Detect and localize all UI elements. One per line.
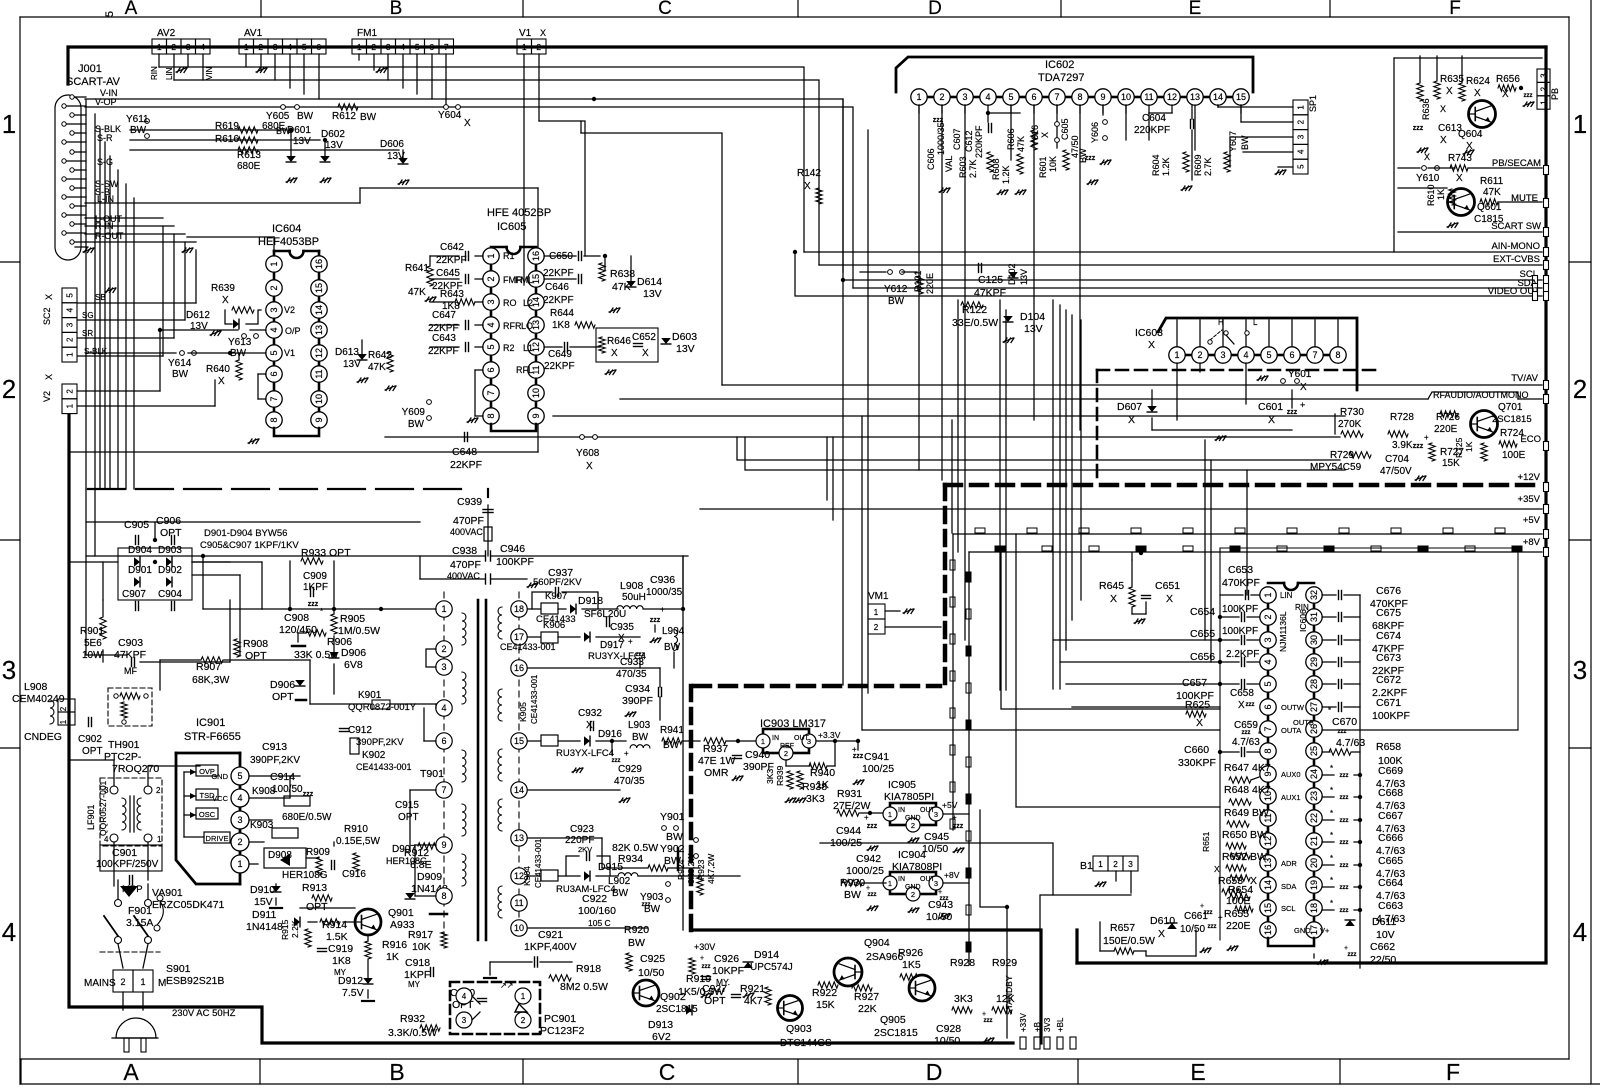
svg-text:D603: D603	[672, 331, 697, 343]
svg-text:4: 4	[237, 793, 242, 803]
svg-text:X: X	[44, 374, 54, 380]
svg-text:UPC574J: UPC574J	[750, 962, 793, 973]
svg-text:R924: R924	[676, 859, 686, 880]
svg-text:AV2: AV2	[157, 28, 176, 39]
svg-text:R611: R611	[1480, 176, 1504, 187]
svg-text:100KPF: 100KPF	[496, 556, 534, 568]
svg-text:1: 1	[761, 737, 765, 746]
svg-text:16: 16	[531, 251, 541, 261]
svg-text:3: 3	[2, 655, 16, 685]
svg-text:X: X	[44, 294, 54, 300]
svg-text:1: 1	[66, 403, 75, 408]
svg-text:C606: C606	[926, 148, 936, 170]
svg-text:*: *	[1330, 899, 1333, 908]
svg-text:Y613: Y613	[228, 337, 252, 348]
svg-text:1: 1	[916, 92, 921, 102]
svg-text:zzz: zzz	[1340, 908, 1349, 914]
svg-text:D904: D904	[128, 545, 152, 556]
svg-text:6: 6	[1263, 704, 1273, 709]
svg-text:7: 7	[444, 42, 449, 52]
svg-text:2: 2	[911, 890, 915, 899]
svg-text:zzz: zzz	[1413, 125, 1424, 132]
svg-text:2: 2	[1263, 614, 1273, 619]
svg-text:220E: 220E	[1226, 920, 1251, 932]
svg-text:Q601: Q601	[1477, 202, 1502, 213]
svg-text:X: X	[464, 118, 471, 129]
svg-text:C914: C914	[270, 771, 295, 783]
svg-text:470PF: 470PF	[450, 559, 481, 571]
svg-text:R645: R645	[1099, 580, 1124, 592]
svg-text:8: 8	[441, 891, 446, 901]
svg-text:1: 1	[66, 352, 75, 357]
svg-text:3: 3	[104, 786, 109, 795]
svg-text:2: 2	[59, 706, 68, 711]
svg-text:220KPF: 220KPF	[974, 125, 984, 158]
svg-text:D903: D903	[158, 545, 182, 556]
svg-text:3K3: 3K3	[806, 793, 825, 805]
svg-text:47KPF: 47KPF	[974, 287, 1006, 299]
svg-text:zzz: zzz	[867, 823, 878, 830]
svg-text:ADR: ADR	[1281, 859, 1297, 868]
svg-text:+: +	[866, 885, 870, 892]
svg-text:4.7/63: 4.7/63	[1336, 737, 1365, 749]
svg-text:R927: R927	[854, 991, 879, 1003]
svg-text:560PF/2KV: 560PF/2KV	[533, 577, 582, 588]
svg-text:47/50V: 47/50V	[1380, 466, 1412, 477]
svg-text:20: 20	[1309, 858, 1319, 868]
svg-text:13V: 13V	[643, 288, 662, 300]
svg-text:Q701: Q701	[1498, 402, 1523, 413]
svg-text:zzz: zzz	[1208, 924, 1217, 930]
svg-text:GND: GND	[905, 884, 921, 891]
svg-text:zzz: zzz	[1340, 885, 1349, 891]
svg-text:R641: R641	[405, 263, 429, 274]
svg-text:OUT: OUT	[794, 735, 810, 742]
svg-text:7: 7	[486, 390, 496, 395]
svg-text:Y902: Y902	[660, 843, 685, 855]
svg-text:2: 2	[120, 977, 125, 987]
svg-text:HER108G: HER108G	[282, 870, 328, 881]
svg-text:Y612: Y612	[884, 284, 908, 295]
svg-text:AIN-MONO: AIN-MONO	[1491, 241, 1540, 252]
svg-text:2.2K: 2.2K	[290, 920, 300, 938]
svg-text:BW: BW	[1240, 135, 1250, 150]
svg-text:2SC1815: 2SC1815	[1492, 414, 1532, 425]
svg-text:Y610: Y610	[1416, 173, 1440, 184]
svg-text:zzz: zzz	[303, 791, 314, 798]
svg-text:+: +	[1424, 433, 1429, 442]
svg-text:*: *	[1328, 706, 1331, 715]
svg-text:+8V: +8V	[1523, 537, 1541, 548]
svg-text:2KV: 2KV	[578, 845, 592, 854]
svg-text:31: 31	[1309, 612, 1319, 622]
svg-text:X: X	[1040, 132, 1050, 138]
svg-text:5: 5	[1266, 350, 1271, 360]
svg-text:R928: R928	[950, 957, 975, 969]
svg-text:1: 1	[157, 42, 162, 52]
svg-text:zzz: zzz	[1287, 409, 1298, 416]
svg-text:C647: C647	[432, 310, 456, 321]
svg-text:2: 2	[536, 42, 541, 52]
svg-text:Y609: Y609	[402, 407, 426, 418]
svg-text:18: 18	[1309, 903, 1319, 913]
svg-text:B1: B1	[1080, 860, 1093, 872]
svg-text:X: X	[1300, 382, 1307, 393]
svg-text:C663: C663	[1378, 900, 1403, 912]
svg-text:15K: 15K	[1442, 458, 1460, 469]
svg-text:R917: R917	[408, 929, 433, 941]
svg-text:X: X	[1128, 414, 1135, 426]
svg-text:2.7K: 2.7K	[1203, 157, 1213, 176]
svg-text:18: 18	[514, 604, 524, 614]
svg-text:10V: 10V	[1376, 929, 1395, 941]
svg-text:CE41433-001: CE41433-001	[356, 762, 412, 772]
svg-text:R635: R635	[1440, 74, 1464, 85]
svg-text:R929: R929	[992, 957, 1017, 969]
svg-text:D914: D914	[754, 949, 779, 961]
svg-text:BW: BW	[628, 937, 645, 949]
svg-text:1N4148: 1N4148	[246, 921, 283, 933]
svg-text:3: 3	[273, 42, 278, 52]
svg-text:13: 13	[514, 833, 524, 843]
svg-text:22/50: 22/50	[1370, 954, 1396, 966]
svg-text:15K: 15K	[816, 999, 835, 1011]
svg-text:13V: 13V	[1019, 269, 1029, 285]
svg-text:C: C	[658, 0, 672, 19]
svg-text:C125: C125	[978, 274, 1003, 286]
svg-text:CNDEG: CNDEG	[24, 731, 62, 743]
svg-text:C941: C941	[864, 751, 889, 763]
svg-text:BW: BW	[888, 296, 905, 307]
svg-text:7: 7	[1312, 350, 1317, 360]
svg-text:10/50: 10/50	[926, 911, 952, 923]
svg-text:PB/SECAM: PB/SECAM	[1492, 158, 1541, 169]
svg-text:5: 5	[269, 350, 279, 355]
svg-text:R624: R624	[1466, 76, 1490, 87]
svg-text:zzz: zzz	[1348, 952, 1357, 958]
svg-text:R743: R743	[1448, 153, 1472, 164]
svg-text:5: 5	[104, 11, 116, 17]
svg-text:BW: BW	[408, 419, 425, 430]
svg-text:15: 15	[514, 736, 524, 746]
svg-text:22KPF: 22KPF	[544, 361, 575, 372]
svg-text:TH901: TH901	[108, 739, 140, 751]
svg-text:27: 27	[1309, 702, 1319, 712]
svg-text:13V: 13V	[325, 140, 343, 151]
svg-text:220KPF: 220KPF	[1134, 125, 1170, 136]
svg-text:Q903: Q903	[786, 1023, 812, 1035]
svg-text:R912: R912	[404, 847, 429, 859]
svg-text:C915: C915	[395, 800, 419, 811]
svg-text:R652 BW: R652 BW	[1222, 851, 1267, 863]
svg-text:2: 2	[237, 837, 242, 847]
svg-text:R909: R909	[306, 847, 330, 858]
svg-text:D912: D912	[338, 975, 363, 987]
svg-text:IC901: IC901	[196, 717, 225, 729]
svg-text:RO: RO	[503, 298, 517, 308]
svg-text:5: 5	[486, 344, 496, 349]
svg-text:R647: R647	[1224, 762, 1249, 774]
svg-text:10/50: 10/50	[1180, 924, 1205, 935]
svg-text:0.15E,5W: 0.15E,5W	[336, 836, 380, 847]
svg-text:2: 2	[156, 786, 161, 795]
svg-text:D901-D904 BYW56: D901-D904 BYW56	[204, 528, 287, 539]
svg-text:RFL: RFL	[516, 365, 533, 375]
svg-text:S901: S901	[166, 963, 191, 975]
svg-text:30: 30	[1309, 635, 1319, 645]
svg-text:47K: 47K	[1016, 136, 1026, 152]
svg-text:C653: C653	[1228, 564, 1253, 576]
svg-text:C919: C919	[328, 943, 353, 955]
svg-text:C913: C913	[262, 741, 287, 753]
svg-text:1: 1	[157, 835, 162, 844]
svg-text:DRIVE: DRIVE	[206, 834, 229, 843]
svg-text:TV/AV: TV/AV	[1511, 373, 1538, 384]
svg-text:1KPF,400V: 1KPF,400V	[524, 941, 577, 953]
svg-text:C907: C907	[122, 589, 146, 600]
svg-text:FM1: FM1	[357, 28, 377, 39]
svg-text:2: 2	[1573, 374, 1587, 404]
svg-text:47K: 47K	[368, 362, 386, 373]
svg-text:2: 2	[1297, 119, 1306, 124]
svg-text:X: X	[1238, 700, 1245, 711]
svg-text:4: 4	[287, 42, 292, 52]
svg-text:SR: SR	[82, 329, 93, 338]
svg-text:1000/35: 1000/35	[936, 122, 946, 155]
svg-text:C938: C938	[452, 545, 477, 557]
svg-text:OPT: OPT	[306, 901, 328, 913]
svg-text:R1: R1	[503, 251, 515, 261]
svg-text:R656: R656	[1496, 74, 1520, 85]
svg-text:IC605: IC605	[497, 221, 526, 233]
svg-text:+: +	[700, 955, 704, 962]
svg-text:14: 14	[1263, 880, 1273, 890]
svg-text:R603: R603	[958, 156, 968, 178]
svg-text:1: 1	[2, 109, 16, 139]
svg-text:9: 9	[314, 417, 324, 422]
svg-text:V+: V+	[1320, 926, 1330, 935]
svg-text:K907: K907	[545, 591, 567, 602]
svg-text:RU3YX-LFC4: RU3YX-LFC4	[556, 748, 614, 759]
svg-text:X: X	[618, 633, 625, 644]
svg-text:OPT: OPT	[398, 812, 419, 823]
svg-text:R941: R941	[660, 725, 684, 736]
svg-text:5: 5	[415, 42, 420, 52]
svg-text:C643: C643	[432, 333, 456, 344]
svg-text:100E: 100E	[1502, 450, 1526, 461]
svg-text:3K3: 3K3	[765, 769, 775, 784]
svg-text:RFR: RFR	[503, 321, 522, 331]
svg-text:C922: C922	[582, 893, 607, 905]
svg-text:X: X	[1456, 173, 1463, 184]
svg-text:13V: 13V	[293, 136, 311, 147]
svg-text:4: 4	[1243, 350, 1248, 360]
svg-text:2: 2	[911, 821, 915, 830]
svg-text:R606: R606	[1006, 128, 1016, 150]
svg-text:10K: 10K	[412, 941, 431, 953]
svg-text:R650 BW: R650 BW	[1222, 829, 1267, 841]
svg-text:OSC: OSC	[199, 810, 216, 819]
svg-text:68K,3W: 68K,3W	[192, 674, 229, 686]
svg-text:3: 3	[1297, 134, 1306, 139]
svg-text:C909: C909	[303, 571, 327, 582]
svg-text:2SC1815: 2SC1815	[874, 1027, 918, 1039]
svg-text:21: 21	[1309, 836, 1319, 846]
svg-text:Y616: Y616	[1030, 125, 1040, 146]
svg-text:C902: C902	[78, 734, 102, 745]
svg-text:EXT-CVBS: EXT-CVBS	[1493, 254, 1540, 265]
svg-text:X: X	[1446, 86, 1453, 97]
svg-text:OVP: OVP	[199, 767, 215, 776]
svg-text:5: 5	[1263, 681, 1273, 686]
svg-text:270K: 270K	[1338, 419, 1362, 430]
svg-text:3: 3	[237, 815, 242, 825]
svg-text:4.7/63: 4.7/63	[1232, 737, 1260, 748]
svg-text:2: 2	[486, 276, 496, 281]
svg-text:16: 16	[314, 259, 324, 269]
svg-text:NJM1136L: NJM1136L	[1278, 611, 1288, 652]
svg-text:RIN: RIN	[150, 66, 159, 80]
svg-text:MPY54C59: MPY54C59	[1310, 462, 1362, 473]
svg-text:X: X	[1196, 717, 1203, 729]
svg-text:390PF,2KV: 390PF,2KV	[250, 755, 300, 766]
svg-text:2: 2	[2, 374, 16, 404]
svg-text:6: 6	[429, 42, 434, 52]
svg-text:E: E	[1189, 0, 1202, 19]
svg-text:Y607: Y607	[1228, 131, 1238, 152]
svg-text:4: 4	[1573, 917, 1587, 947]
svg-text:32: 32	[1309, 590, 1319, 600]
svg-text:D: D	[926, 1059, 943, 1085]
svg-text:C669: C669	[1378, 765, 1403, 777]
svg-text:10/50: 10/50	[934, 1035, 960, 1047]
svg-text:10: 10	[1121, 92, 1131, 102]
svg-text:L902: L902	[608, 876, 631, 887]
svg-text:R646: R646	[607, 336, 631, 347]
svg-text:Y606: Y606	[1090, 122, 1100, 143]
svg-text:1: 1	[441, 604, 446, 614]
svg-text:D612: D612	[186, 310, 210, 321]
svg-text:1: 1	[269, 261, 279, 266]
svg-text:A: A	[125, 0, 138, 19]
svg-text:OUTA: OUTA	[1281, 726, 1301, 735]
svg-text:4: 4	[400, 42, 405, 52]
svg-text:4: 4	[269, 327, 279, 332]
svg-text:1: 1	[888, 879, 892, 888]
svg-text:C673: C673	[1376, 652, 1401, 664]
svg-text:C923: C923	[570, 824, 594, 835]
svg-text:PC123F2: PC123F2	[540, 1025, 585, 1037]
svg-text:10: 10	[514, 923, 524, 933]
svg-text:C905&C907 1KPF/1KV: C905&C907 1KPF/1KV	[200, 540, 299, 551]
svg-text:4K7: 4K7	[1252, 762, 1271, 774]
svg-text:R2: R2	[503, 343, 515, 353]
svg-text:+33V: +33V	[1019, 1012, 1028, 1032]
svg-text:3: 3	[386, 42, 391, 52]
svg-text:L: L	[1253, 318, 1258, 327]
svg-text:+12V: +12V	[1518, 472, 1541, 483]
svg-text:C905: C905	[124, 519, 149, 531]
svg-text:IC606: IC606	[1298, 609, 1308, 632]
svg-text:R922: R922	[812, 987, 837, 999]
svg-text:R609: R609	[1193, 154, 1203, 176]
svg-text:400VAC: 400VAC	[450, 527, 483, 537]
svg-text:D918: D918	[578, 595, 603, 607]
svg-text:R920: R920	[624, 924, 649, 936]
svg-text:1.2K: 1.2K	[1001, 165, 1011, 184]
svg-text:L908: L908	[620, 580, 644, 592]
svg-text:22KPF: 22KPF	[543, 295, 574, 306]
svg-text:D614: D614	[637, 276, 662, 288]
svg-text:D916: D916	[598, 729, 622, 740]
svg-text:470/35: 470/35	[614, 776, 645, 787]
svg-text:2: 2	[66, 337, 75, 342]
svg-text:zzz: zzz	[868, 892, 877, 898]
svg-text:C604: C604	[1142, 113, 1166, 124]
svg-text:PB: PB	[1550, 88, 1560, 100]
svg-text:IC904: IC904	[898, 849, 926, 861]
svg-text:4: 4	[1297, 149, 1306, 154]
svg-text:3.9K: 3.9K	[1392, 440, 1413, 451]
svg-text:9: 9	[1100, 92, 1105, 102]
svg-text:STANDBY: STANDBY	[1004, 975, 1014, 1015]
svg-text:L1: L1	[523, 343, 533, 353]
svg-text:100KPF: 100KPF	[1372, 710, 1410, 722]
svg-text:AUX1: AUX1	[1281, 793, 1301, 802]
svg-text:MF: MF	[124, 666, 137, 676]
svg-text:2.7K: 2.7K	[968, 159, 978, 178]
svg-text:100KPF: 100KPF	[1222, 626, 1258, 637]
svg-text:10: 10	[314, 394, 324, 404]
svg-text:*: *	[1330, 831, 1333, 840]
svg-text:GND: GND	[905, 815, 921, 822]
svg-text:6: 6	[1031, 92, 1036, 102]
svg-text:+: +	[938, 889, 942, 896]
svg-text:zzz: zzz	[1524, 93, 1533, 99]
svg-text:3: 3	[441, 662, 446, 672]
svg-text:4: 4	[2, 917, 16, 947]
svg-text:BW: BW	[172, 369, 189, 380]
svg-text:D611: D611	[1372, 916, 1396, 928]
svg-text:C932: C932	[578, 708, 602, 719]
svg-text:4: 4	[985, 92, 990, 102]
svg-text:HFE 4052BP: HFE 4052BP	[487, 207, 551, 219]
svg-text:R932: R932	[400, 1013, 425, 1025]
svg-text:6: 6	[316, 42, 321, 52]
svg-text:1: 1	[522, 42, 527, 52]
svg-text:3: 3	[66, 322, 75, 327]
svg-text:OPT: OPT	[272, 691, 294, 703]
svg-text:C660: C660	[1184, 744, 1209, 756]
svg-text:2: 2	[441, 644, 446, 654]
svg-text:zzz: zzz	[1340, 863, 1349, 869]
svg-text:V1: V1	[519, 28, 532, 39]
svg-text:8: 8	[1077, 92, 1082, 102]
svg-text:15V: 15V	[254, 896, 273, 908]
svg-text:D901: D901	[128, 565, 152, 576]
svg-text:+: +	[1344, 945, 1348, 952]
svg-text:C901: C901	[112, 847, 137, 859]
svg-text:M: M	[158, 978, 166, 989]
svg-text:C918: C918	[405, 957, 430, 969]
svg-text:2: 2	[66, 389, 75, 394]
svg-text:100/160: 100/160	[578, 905, 616, 917]
svg-text:1K: 1K	[1464, 441, 1474, 452]
svg-text:8: 8	[269, 417, 279, 422]
svg-text:R657: R657	[1110, 922, 1135, 934]
svg-text:25: 25	[1309, 746, 1319, 756]
svg-text:7: 7	[1054, 92, 1059, 102]
